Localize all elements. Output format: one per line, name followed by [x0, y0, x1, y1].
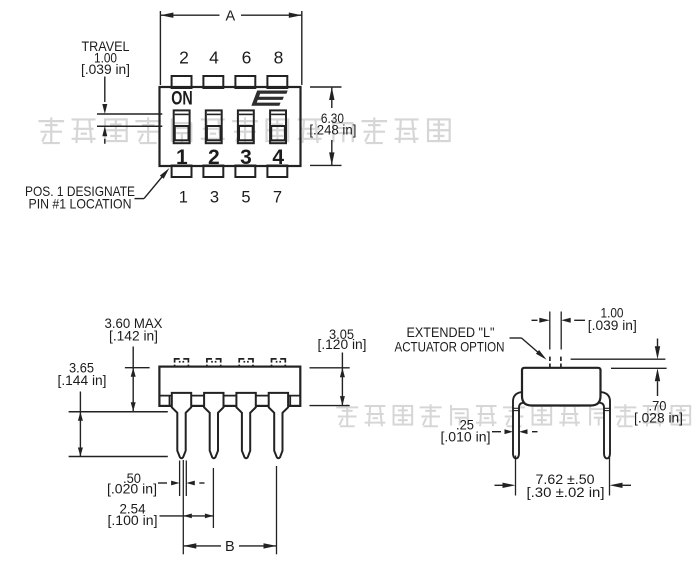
svg-text:[.039 in]: [.039 in]	[588, 317, 637, 333]
svg-text:6: 6	[242, 48, 252, 68]
svg-text:[.028 in]: [.028 in]	[634, 409, 683, 425]
end view: right lead	[596, 392, 610, 458]
svg-text:[.144 in]: [.144 in]	[58, 372, 107, 388]
svg-text:5: 5	[241, 189, 250, 207]
top view: switch slot 3	[238, 110, 254, 143]
side view: pin 4	[269, 393, 288, 458]
pin 2 center extension line	[212, 468, 214, 528]
top view: actuator 1 (off position)	[175, 126, 189, 140]
dimension 3.05: extension lines	[310, 367, 350, 369]
svg-text:B: B	[225, 539, 235, 555]
side view: actuator phantom mark 2	[207, 359, 221, 367]
svg-text:7: 7	[273, 189, 282, 207]
svg-text:4: 4	[209, 48, 219, 68]
svg-text:[.010 in]: [.010 in]	[441, 429, 491, 445]
seating plane line	[69, 411, 168, 413]
note leader arrow to pin 1 corner	[135, 198, 145, 200]
side view: body outline	[159, 367, 300, 406]
dimension 3.65: stem and arrows	[79, 392, 81, 457]
side view: base strip line	[159, 395, 300, 397]
svg-text:8: 8	[274, 48, 284, 68]
watermark row 2	[336, 404, 358, 426]
svg-text:2: 2	[179, 48, 189, 68]
side view: pin 3	[236, 393, 255, 458]
dimension .50: leader and arrows	[158, 482, 167, 484]
side view: base strip right end cap	[289, 396, 291, 406]
dimension 3.60 MAX: stem, tick and arrows	[132, 347, 134, 412]
svg-text:[.100 in]: [.100 in]	[108, 512, 158, 528]
dimension 7.62: extension lines	[515, 456, 517, 496]
side view: base strip left end cap	[169, 396, 171, 406]
dimension 6.30: dimension line and arrows	[331, 87, 333, 108]
top view: actuator 3 (off position)	[239, 126, 253, 140]
pin tip reference line	[69, 456, 168, 458]
svg-text:[.142 in]: [.142 in]	[109, 327, 158, 343]
dimension .70: arrows	[657, 339, 659, 347]
end view: body outline	[522, 368, 601, 406]
top view: switch slot 2	[206, 110, 222, 143]
side view: pin 2	[204, 393, 223, 458]
top view: bottom pin tab 5	[235, 166, 255, 178]
svg-text:[.020 in]: [.020 in]	[107, 481, 157, 497]
end view: right lead crimp marks	[604, 407, 610, 409]
svg-text:PIN #1 LOCATION: PIN #1 LOCATION	[29, 196, 132, 212]
top view: bottom pin tab 3	[203, 166, 223, 178]
svg-text:1: 1	[179, 189, 188, 207]
end view: extended actuator phantom marks	[549, 357, 551, 361]
dimension 1.00: extension lines	[549, 312, 551, 350]
side view: actuator phantom mark 3	[239, 359, 253, 367]
side view: pin 1	[172, 393, 191, 458]
top view: dip switch body outline	[160, 87, 301, 166]
end view: left lead crimp marks	[513, 407, 519, 409]
end view: left lead	[513, 392, 527, 458]
dimension 7.62: arrows	[495, 484, 504, 486]
dimension A: dimension line and arrows	[160, 14, 219, 16]
side view: actuator phantom mark 1	[175, 359, 189, 367]
top view: actuator 4 (off position)	[271, 126, 285, 140]
top view: top pin tab 4	[203, 76, 223, 88]
dimension .50: extension lines	[179, 461, 181, 497]
svg-text:A: A	[225, 9, 235, 25]
top view: bottom pin tab 7	[267, 166, 287, 178]
travel dimension: arrows	[104, 77, 106, 103]
svg-text:4: 4	[272, 146, 284, 169]
svg-text:[.30 ±.02 in]: [.30 ±.02 in]	[527, 485, 605, 500]
dimension .25: leader and arrows	[492, 431, 501, 433]
top view: brand logo (stylized E)	[251, 91, 287, 106]
travel dimension: reference lines	[97, 113, 162, 115]
dimension .70: extension lines	[571, 358, 666, 360]
top view: bottom pin tab 1	[172, 166, 192, 178]
side view: actuator phantom mark 4	[272, 359, 286, 367]
top view: top pin tab 2	[172, 76, 192, 88]
svg-text:[.248 in]: [.248 in]	[309, 122, 356, 138]
top view: top pin tab 6	[235, 76, 255, 88]
svg-text:3: 3	[210, 189, 219, 207]
svg-text:2: 2	[208, 146, 220, 169]
top view: actuator 2 (off position)	[207, 126, 221, 140]
dimension 1.00: arrows	[532, 319, 538, 321]
svg-text:ACTUATOR OPTION: ACTUATOR OPTION	[395, 338, 505, 354]
dimension A: extension lines	[159, 11, 161, 85]
dimension 6.30: extension lines	[310, 86, 342, 88]
top view: top pin tab 8	[267, 76, 287, 88]
dimension 3.05: stem and arrows	[341, 353, 343, 406]
dimension B: right extension line	[276, 466, 278, 554]
top view: switch slot 4	[270, 110, 286, 143]
top view: switch slot 1	[174, 110, 190, 143]
svg-text:1: 1	[176, 146, 188, 169]
svg-text:[.120 in]: [.120 in]	[318, 336, 367, 352]
svg-text:ON: ON	[171, 87, 193, 109]
watermark row 1	[38, 117, 64, 143]
dimension 2.54: line and arrows	[160, 515, 214, 517]
svg-text:[.039 in]: [.039 in]	[81, 61, 130, 77]
svg-text:3: 3	[240, 146, 252, 169]
dimension B: line and arrows	[183, 545, 221, 547]
pin 1 center extension line	[182, 460, 184, 554]
note leader arrow to actuator	[510, 337, 522, 339]
